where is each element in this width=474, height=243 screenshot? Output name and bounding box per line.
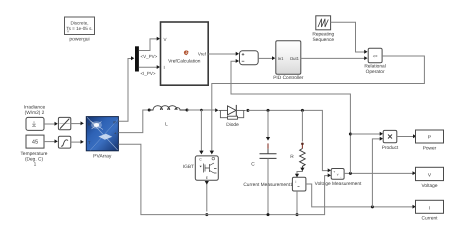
capacitor C branch	[251, 109, 276, 215]
wire current junction to product in2	[372, 137, 383, 207]
svg-text:Repeating: Repeating	[312, 31, 334, 37]
svg-text:VrefCalculation: VrefCalculation	[168, 59, 201, 65]
svg-text:Irradiance: Irradiance	[24, 105, 46, 111]
svg-text:Relational: Relational	[364, 64, 385, 70]
svg-text:1: 1	[34, 162, 37, 168]
PV Array block	[86, 117, 118, 160]
wire bus out1 to VrefCalculation V	[139, 37, 160, 59]
svg-text:P: P	[428, 135, 431, 141]
wire CM1 output to current display	[306, 184, 416, 209]
diode D	[219, 105, 246, 128]
svg-text:Voltage Measurement: Voltage Measurement	[315, 181, 362, 187]
rate limiter 2	[58, 136, 70, 148]
IGBT block	[183, 156, 219, 180]
wire inductor to diode	[187, 108, 218, 112]
svg-text:<I_PV>: <I_PV>	[141, 71, 156, 76]
svg-text:V: V	[164, 37, 167, 42]
svg-text:Temperature: Temperature	[21, 151, 48, 157]
svg-text:45: 45	[32, 140, 38, 146]
Repeating Sequence block	[312, 16, 334, 43]
wire PID to relational operator b	[301, 56, 368, 60]
current display I	[416, 200, 444, 221]
label Irradiance	[24, 105, 46, 117]
wire rate limiter 2 to PV T	[71, 140, 84, 144]
svg-text:I: I	[164, 65, 165, 70]
svg-text:<V_PV>: <V_PV>	[141, 54, 158, 59]
svg-text:Current: Current	[422, 216, 439, 222]
voltage display V	[416, 167, 444, 189]
svg-text:Operator: Operator	[366, 69, 385, 75]
svg-text:Power: Power	[423, 146, 437, 152]
wire VM junction up to product in1 and sum minus	[231, 59, 383, 173]
svg-text:<=: <=	[373, 53, 378, 58]
svg-text:Discrete,: Discrete,	[70, 21, 88, 26]
svg-text:+: +	[333, 170, 335, 174]
inductor L	[149, 106, 188, 128]
irradiance source block	[26, 117, 44, 130]
wire diode to node B	[246, 109, 331, 172]
svg-text:R: R	[290, 154, 294, 160]
wire IGBT emitter to rail	[205, 180, 209, 216]
svg-text:Diode: Diode	[226, 122, 239, 128]
wire node to IGBT collector	[199, 110, 203, 154]
svg-text:IGBT: IGBT	[183, 164, 194, 170]
svg-text:Product: Product	[382, 145, 399, 151]
wire rate limiter 1 to PV Ir	[71, 121, 84, 125]
svg-text:(Deg. C): (Deg. C)	[25, 156, 44, 162]
svg-text:Ts = 1e-05 s.: Ts = 1e-05 s.	[66, 26, 92, 31]
PID Controller block	[273, 41, 304, 81]
sum block	[240, 51, 259, 65]
wire Sum to PID	[258, 56, 275, 60]
constant 45	[26, 135, 44, 148]
wire VM output to voltage display	[344, 171, 416, 175]
wire repeating sequence to relational operator a	[331, 22, 368, 54]
svg-text:v: v	[337, 173, 339, 177]
product block	[382, 130, 399, 150]
voltage measurement block	[315, 169, 362, 188]
wire irradiance to rate limiter	[44, 122, 58, 126]
wire PV- to bottom rail	[118, 144, 331, 216]
svg-text:PVArray: PVArray	[93, 154, 112, 160]
VrefCalculation block (MATLAB Function)	[161, 22, 209, 85]
wire relational operator to IGBT gate	[210, 56, 425, 154]
wire PV+ to inductor	[118, 109, 150, 133]
svg-text:PID Controller: PID Controller	[273, 75, 304, 81]
svg-text:powergui: powergui	[69, 37, 89, 43]
powergui block	[65, 17, 95, 43]
wire CM1 bottom to rail	[296, 191, 299, 216]
svg-text:Voltage: Voltage	[421, 183, 437, 189]
svg-text:-: -	[340, 175, 341, 179]
svg-text:Sequence: Sequence	[312, 37, 334, 43]
svg-text:C: C	[251, 161, 255, 167]
svg-text:Vref: Vref	[198, 51, 207, 56]
svg-text:L: L	[165, 122, 168, 128]
svg-text:I: I	[429, 205, 430, 211]
wire PV m to bus selector	[118, 56, 134, 121]
svg-text:Out1: Out1	[290, 56, 300, 61]
bus selector	[135, 46, 139, 71]
rate limiter 1	[58, 117, 70, 129]
resistor R branch	[290, 109, 305, 178]
label Temperature	[21, 151, 48, 168]
wire bus out2 to VrefCalculation I	[139, 65, 160, 76]
wire product to power display	[397, 134, 417, 138]
wire constant to rate limiter 2	[44, 139, 58, 143]
current measurement1 block	[243, 177, 306, 191]
power display P	[416, 130, 444, 152]
wire Vref to Sum	[208, 52, 239, 56]
relational operator block	[364, 48, 385, 75]
svg-text:Current Measurement1: Current Measurement1	[243, 182, 293, 188]
svg-text:(W/m2) 2: (W/m2) 2	[25, 110, 45, 116]
svg-text:In1: In1	[278, 56, 284, 61]
